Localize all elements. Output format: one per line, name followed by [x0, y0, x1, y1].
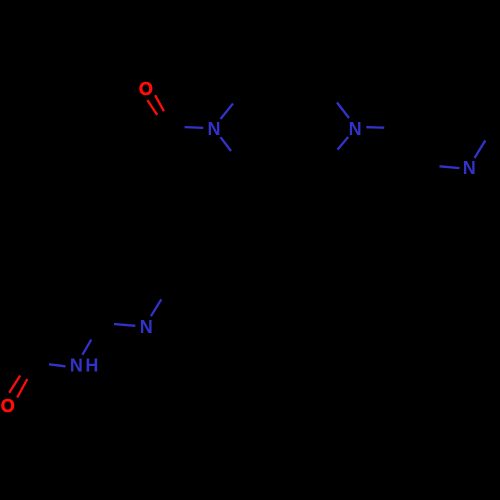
wire: NH left half-bond: [49, 364, 66, 366]
wire: C=O double bond outer line (top-left): [155, 95, 164, 111]
wire: bottom C=O double bond upper line: [9, 376, 20, 393]
wire: carbonyl C to N1 half-bond: [185, 126, 204, 129]
wire: NH up-right half-bond: [82, 340, 91, 355]
wire: N4 up-right half-bond: [151, 299, 161, 316]
svg-text:H: H: [85, 356, 98, 376]
svg-text:N: N: [70, 356, 83, 376]
svg-text:O: O: [139, 79, 153, 99]
svg-text:N: N: [140, 317, 153, 337]
svg-text:N: N: [463, 158, 476, 178]
wire: N2 up-left half-bond: [337, 103, 349, 119]
wire: N2 right half-bond: [366, 126, 384, 129]
wire: C=O double bond inner line (top-left): [147, 100, 157, 115]
wire: N3 up-right half-bond: [475, 141, 486, 159]
svg-text:N: N: [208, 119, 221, 139]
wire: bottom C=O double bond lower line: [17, 379, 27, 398]
wire: N2 down-left half-bond: [338, 137, 349, 150]
wire: N4 left half-bond: [114, 324, 135, 326]
svg-text:N: N: [349, 119, 362, 139]
svg-text:O: O: [1, 396, 15, 416]
wire: N1 down-right half-bond: [221, 137, 232, 151]
wire: N3 left half-bond: [440, 166, 460, 168]
wire: N1 up-right half-bond: [221, 104, 234, 120]
